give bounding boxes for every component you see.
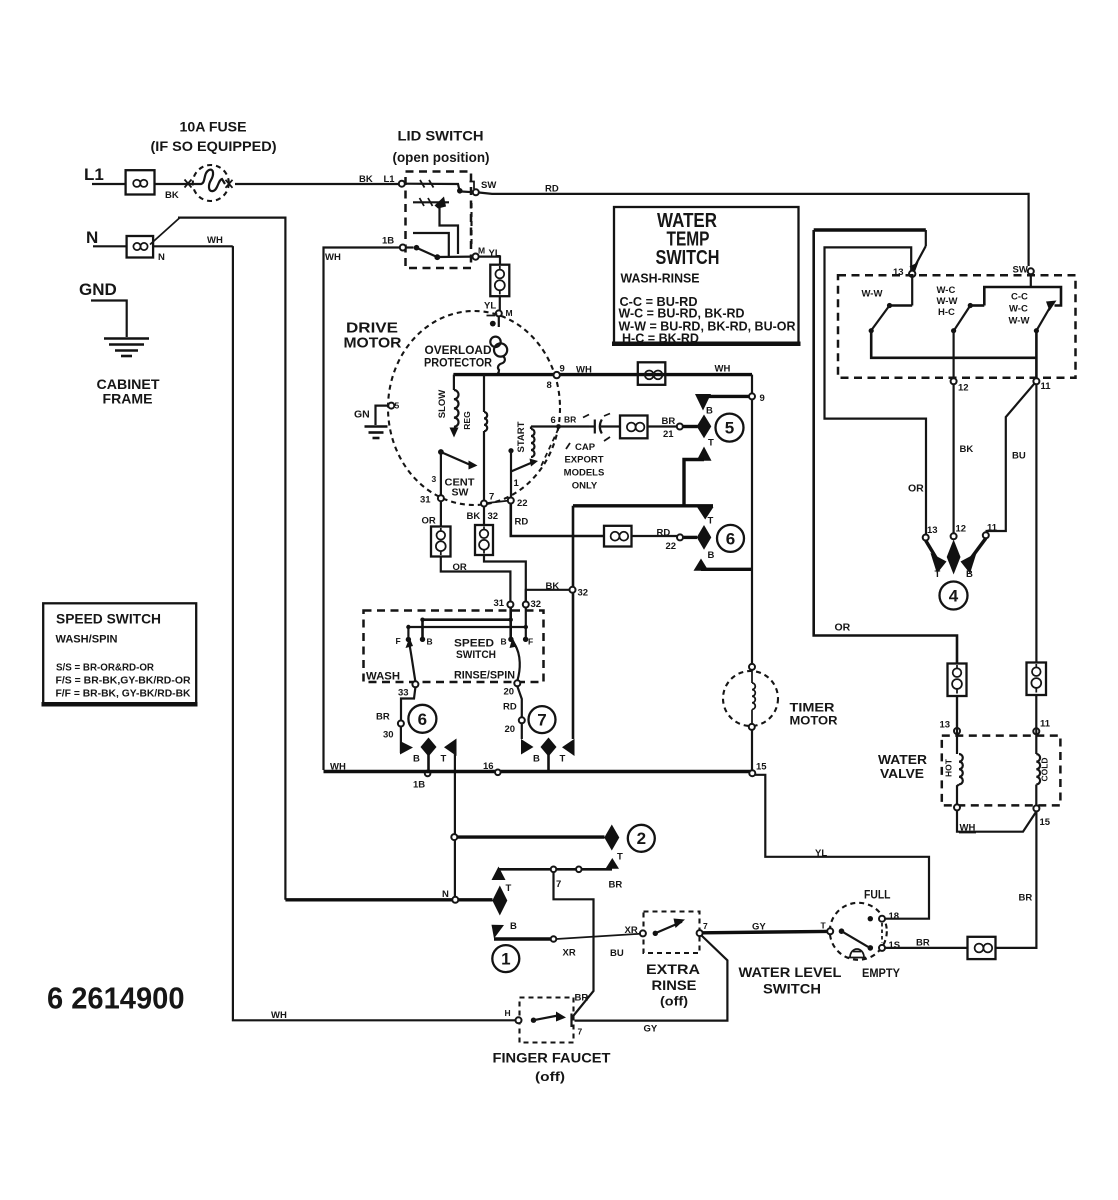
svg-text:B: B xyxy=(706,406,713,417)
cent sw blade arrow xyxy=(469,461,478,470)
wire diamond to bus xyxy=(427,754,430,770)
svg-text:13: 13 xyxy=(940,720,951,731)
wire to terminal 21 xyxy=(648,425,677,427)
wire 13 into box xyxy=(911,277,913,306)
svg-text:WH: WH xyxy=(576,365,592,376)
start blade dashed throw xyxy=(540,429,559,470)
svg-text:HOT: HOT xyxy=(944,758,954,777)
wire SW drop xyxy=(1030,274,1032,287)
terminal 31 speed switch xyxy=(507,602,513,608)
svg-text:12: 12 xyxy=(958,383,969,394)
wire to SW xyxy=(462,190,473,193)
svg-text:SW: SW xyxy=(1013,265,1028,276)
svg-text:RINSE/SPIN: RINSE/SPIN xyxy=(454,670,515,682)
label DRIVE MOTOR xyxy=(344,320,402,352)
wire BR from empty xyxy=(885,947,968,949)
water level blade xyxy=(842,931,869,947)
svg-text:WH: WH xyxy=(271,1010,287,1021)
svg-text:WATER: WATER xyxy=(878,753,927,767)
label WATER VALVE xyxy=(878,753,927,781)
terminal 21 xyxy=(677,424,683,430)
svg-text:6: 6 xyxy=(418,710,427,729)
N diamond xyxy=(492,886,507,916)
svg-text:T: T xyxy=(506,883,512,894)
svg-text:WATER LEVEL: WATER LEVEL xyxy=(739,965,842,980)
wash blade xyxy=(406,638,416,682)
label LID SWITCH (open position) xyxy=(393,128,490,166)
contact dot xyxy=(457,188,463,194)
svg-text:10A FUSE: 10A FUSE xyxy=(180,119,247,135)
node 5 circle xyxy=(716,414,744,442)
svg-text:M: M xyxy=(506,308,513,318)
svg-text:7: 7 xyxy=(556,879,561,890)
contact bracket above SW xyxy=(470,182,475,190)
svg-text:B: B xyxy=(427,637,433,647)
terminal XR extra rinse xyxy=(640,930,646,936)
reg winding branch xyxy=(484,375,487,501)
terminal 22 node6 xyxy=(677,534,683,540)
lid switch internal link1 xyxy=(413,202,458,254)
node6b right arrow xyxy=(444,739,457,757)
wire to M xyxy=(437,256,472,259)
wire neutral riser xyxy=(178,218,285,900)
wire W-W to common xyxy=(871,331,1036,358)
svg-text:W-C: W-C xyxy=(937,285,956,296)
wire cap line xyxy=(531,425,589,427)
svg-text:L1: L1 xyxy=(384,174,396,185)
contact dot overload xyxy=(490,321,496,327)
terminal 11 temp switch xyxy=(1033,378,1039,384)
timer motor dashed circle xyxy=(723,671,778,726)
svg-text:BR: BR xyxy=(376,712,390,723)
finger faucet blade xyxy=(531,1012,566,1023)
label OVERLOAD PROTECTOR xyxy=(424,343,492,370)
wire lid pole2 xyxy=(406,246,414,248)
svg-text:N: N xyxy=(442,889,449,900)
wire hot to bottom xyxy=(957,785,959,805)
blade 11 xyxy=(1034,307,1051,334)
label 10A FUSE (IF SO EQUIPPED) xyxy=(151,119,277,155)
wire 30 down xyxy=(400,727,402,754)
svg-text:SW: SW xyxy=(452,487,469,499)
svg-text:11: 11 xyxy=(1041,381,1052,392)
svg-text:(off): (off) xyxy=(535,1069,565,1084)
svg-text:B: B xyxy=(533,754,540,765)
wire common vertical (T net) xyxy=(572,506,575,739)
blade 11 arrow xyxy=(1046,301,1057,312)
svg-text:GY: GY xyxy=(644,1024,658,1035)
wire RD from 22 motor xyxy=(511,504,604,537)
junction circle 32 xyxy=(570,587,576,593)
node 1 circle xyxy=(492,945,519,972)
svg-text:WH: WH xyxy=(330,762,346,773)
terminal 5 xyxy=(388,403,394,409)
svg-text:B: B xyxy=(966,569,973,580)
junction N xyxy=(452,897,458,903)
svg-text:BK: BK xyxy=(960,444,974,455)
svg-text:32: 32 xyxy=(578,588,589,599)
svg-text:15: 15 xyxy=(1040,817,1051,828)
dashes near CAP xyxy=(566,437,610,449)
wire XR to extra rinse xyxy=(556,934,640,939)
svg-text:9: 9 xyxy=(560,364,565,375)
timer motor terminals xyxy=(749,664,755,730)
wire GY branch to finger faucet xyxy=(575,936,728,1021)
svg-text:ONLY: ONLY xyxy=(572,481,598,492)
cent sw blade xyxy=(441,452,470,465)
svg-text:BK: BK xyxy=(165,190,179,201)
svg-text:18: 18 xyxy=(889,911,900,922)
connector P4 on WH xyxy=(638,362,666,385)
node4 right arrow xyxy=(961,538,986,573)
terminal 30 xyxy=(398,721,404,727)
svg-text:32: 32 xyxy=(531,599,542,610)
svg-text:W-W: W-W xyxy=(937,296,958,307)
node2 T arrow xyxy=(606,858,620,869)
wire WH jog xyxy=(957,810,1036,831)
terminal 7 finger faucet xyxy=(570,1014,572,1028)
label FINGER FAUCET (off) xyxy=(493,1050,611,1085)
svg-text:SWITCH: SWITCH xyxy=(456,649,496,661)
wire gnd stub xyxy=(376,406,389,425)
blade pole2 xyxy=(417,248,438,257)
svg-text:7: 7 xyxy=(703,921,708,931)
label W-C W-W H-C xyxy=(937,285,958,318)
water valve dashed box xyxy=(942,736,1061,806)
svg-text:OR: OR xyxy=(422,516,436,527)
connector P7 OR (motor 31) xyxy=(431,527,451,557)
node7 right arrow xyxy=(562,739,575,756)
node7 diamond xyxy=(541,738,557,757)
svg-text:BU: BU xyxy=(1012,451,1026,462)
wire WH lid return xyxy=(324,248,400,771)
cold coil xyxy=(1036,754,1040,784)
svg-text:6: 6 xyxy=(726,529,735,548)
node5 B arrow xyxy=(695,394,711,411)
node6b left arrow xyxy=(400,741,413,755)
terminal 13 node4 xyxy=(923,535,929,541)
svg-text:BR: BR xyxy=(564,415,576,425)
svg-text:EXPORT: EXPORT xyxy=(564,455,603,466)
label WATER LEVEL SWITCH xyxy=(739,965,842,997)
svg-text:FRAME: FRAME xyxy=(103,391,153,407)
terminal 9 xyxy=(749,393,755,399)
wire WH from N connector xyxy=(153,246,518,1020)
wire 15 jog to YL xyxy=(755,775,930,919)
wire bottom bus WH xyxy=(324,770,753,773)
start switch blade xyxy=(511,463,532,472)
svg-text:OR: OR xyxy=(908,483,924,495)
svg-text:GN: GN xyxy=(354,409,370,421)
blade tick marks pole1 xyxy=(420,180,434,188)
wire N xyxy=(93,245,127,247)
wire 11 blade down xyxy=(1035,331,1038,379)
wire L1 to fuse xyxy=(155,183,197,185)
terminal 7 extra rinse xyxy=(697,930,703,936)
wire 7 stem down (BR) xyxy=(554,872,594,1016)
wire cold to 15 xyxy=(1035,785,1037,806)
svg-text:31: 31 xyxy=(420,495,431,506)
svg-text:BU: BU xyxy=(610,948,624,959)
wire YL below connector xyxy=(499,296,501,310)
wire 11 into valve xyxy=(1035,695,1037,754)
switch blade on N xyxy=(150,218,180,245)
svg-text:S/S = BR-OR&RD-OR: S/S = BR-OR&RD-OR xyxy=(56,663,155,674)
fuse F1 10A (dashed circle and element) xyxy=(193,165,229,201)
water level switch dashed circle xyxy=(830,903,887,960)
svg-text:GND: GND xyxy=(79,280,117,299)
svg-text:B: B xyxy=(510,921,517,932)
terminal 1B xyxy=(400,245,406,251)
terminal T water level xyxy=(827,928,833,934)
contact dot xyxy=(414,245,420,251)
svg-text:SWITCH: SWITCH xyxy=(656,247,720,269)
svg-text:1: 1 xyxy=(501,950,510,969)
wire node6 B to line 9 xyxy=(701,568,752,571)
terminal 32 speed switch xyxy=(523,602,529,608)
wire XR xyxy=(494,937,554,940)
svg-text:B: B xyxy=(501,637,507,647)
terminal H finger faucet xyxy=(516,1017,522,1023)
svg-text:5: 5 xyxy=(395,401,400,411)
wire connector to 13 valve xyxy=(956,696,958,728)
wire into overload xyxy=(498,316,500,327)
wire T bus to node6 xyxy=(684,504,713,507)
terminal 31 motor xyxy=(438,495,444,501)
svg-text:BR: BR xyxy=(1019,893,1033,904)
wire stem to N xyxy=(454,840,456,897)
contact bar W-W xyxy=(887,303,912,308)
svg-text:33: 33 xyxy=(398,688,409,699)
lid switch internal link2 xyxy=(413,233,449,257)
connector P11 right valve xyxy=(1027,663,1047,696)
svg-text:31: 31 xyxy=(494,598,505,609)
svg-text:5: 5 xyxy=(725,419,734,438)
terminal 13 temp switch xyxy=(909,271,915,277)
svg-text:22: 22 xyxy=(666,541,677,552)
svg-text:1B: 1B xyxy=(382,236,394,247)
svg-text:22: 22 xyxy=(517,498,528,509)
wire 9 down to timer xyxy=(751,399,753,664)
svg-text:1S: 1S xyxy=(889,940,901,951)
svg-text:VALVE: VALVE xyxy=(880,767,924,781)
svg-text:BR: BR xyxy=(916,938,930,949)
blade 7-22 xyxy=(487,501,507,503)
svg-text:8: 8 xyxy=(547,380,552,391)
terminal 11 node4 xyxy=(983,532,989,538)
svg-text:BK: BK xyxy=(359,174,373,185)
svg-text:H-C = BK-RD: H-C = BK-RD xyxy=(622,331,699,346)
junction node2 stem xyxy=(451,834,457,840)
rinse blade xyxy=(510,638,520,681)
connector P9 on BR xyxy=(968,937,996,959)
internal tick marks xyxy=(420,198,433,206)
wire BU 11 diagonal xyxy=(987,384,1035,533)
contact bar C-C (SW common) xyxy=(984,287,1061,306)
full contact dot xyxy=(868,916,873,921)
svg-text:LID SWITCH: LID SWITCH xyxy=(398,128,484,144)
svg-text:20: 20 xyxy=(504,687,515,698)
wire 33 to 30 xyxy=(401,687,415,720)
svg-text:PROTECTOR: PROTECTOR xyxy=(424,356,492,370)
svg-text:COLD: COLD xyxy=(1040,757,1050,781)
svg-text:H-C: H-C xyxy=(938,307,955,318)
label WH xyxy=(959,823,976,834)
terminal 18 xyxy=(879,916,885,922)
node4 left arrow xyxy=(926,541,947,574)
label WATER TEMP SWITCH xyxy=(656,210,720,269)
node 4 circle xyxy=(940,582,968,610)
label TIMER MOTOR xyxy=(790,701,838,728)
blade 12 xyxy=(951,306,970,379)
svg-text:H: H xyxy=(505,1008,511,1018)
wire lid pole1 xyxy=(405,184,460,191)
extra rinse dashed box xyxy=(644,912,700,954)
terminal 15 valve xyxy=(1033,805,1039,811)
terminal 7 xyxy=(551,867,557,873)
wire overload to junction xyxy=(497,372,499,374)
junction dot 6 xyxy=(556,424,561,429)
terminal on BR xyxy=(576,867,582,873)
connector P8 BK (motor 7/32) xyxy=(475,525,493,555)
junction 15 timer xyxy=(749,770,755,776)
svg-text:6 2614900: 6 2614900 xyxy=(47,981,185,1016)
svg-text:WH: WH xyxy=(207,235,223,246)
svg-text:1B: 1B xyxy=(413,780,425,791)
junction 16 xyxy=(495,770,501,776)
svg-text:OR: OR xyxy=(453,562,467,573)
wire bus outer down (OR) xyxy=(814,230,957,664)
wire 13 into valve xyxy=(956,696,958,754)
timer motor coil xyxy=(752,670,755,724)
terminal 11 valve xyxy=(1033,728,1039,734)
svg-text:FINGER FAUCET: FINGER FAUCET xyxy=(493,1050,611,1066)
svg-text:2: 2 xyxy=(637,829,646,848)
svg-text:N: N xyxy=(86,228,98,247)
connector P10 OR valve xyxy=(948,664,967,697)
wire 22 to node6 xyxy=(683,536,697,539)
cent sw pivot dot xyxy=(438,449,444,455)
svg-text:RINSE: RINSE xyxy=(652,977,697,993)
wire BK fuse to lid switch xyxy=(235,183,399,185)
blade arrow 13 xyxy=(910,262,919,273)
wire RD from SW xyxy=(479,193,1029,267)
terminal 22 motor xyxy=(508,498,514,504)
temp switch dashed box xyxy=(838,275,1076,378)
connector P3 YL xyxy=(490,265,509,297)
svg-text:RD: RD xyxy=(545,184,559,195)
connector P2 on N xyxy=(127,236,154,258)
slow winding branch xyxy=(454,375,459,427)
svg-text:F/S = BR-BK,GY-BK/RD-OR: F/S = BR-BK,GY-BK/RD-OR xyxy=(56,676,192,687)
wire 11 net down to connector xyxy=(1035,384,1037,662)
connector P6 on RD xyxy=(604,526,632,547)
svg-text:W-W: W-W xyxy=(1009,316,1030,327)
wire OR below connector xyxy=(441,557,511,602)
node 2 circle xyxy=(628,825,655,852)
start blade arrow xyxy=(530,459,539,467)
wire GY to water level xyxy=(703,931,828,932)
fuse F1 terminal x mark xyxy=(185,180,192,188)
contact W-C dot xyxy=(968,303,985,308)
contact dots B xyxy=(420,618,514,643)
node7 left arrow xyxy=(521,739,534,755)
svg-text:21: 21 xyxy=(663,429,674,440)
svg-text:EXTRA: EXTRA xyxy=(646,961,700,977)
wire N to junction diamond xyxy=(285,898,492,901)
svg-text:F: F xyxy=(396,636,401,646)
terminal 12 temp switch xyxy=(951,378,957,384)
svg-text:F/F = BR-BK, GY-BK/RD-BK: F/F = BR-BK, GY-BK/RD-BK xyxy=(56,689,192,700)
terminal 15 water level xyxy=(879,945,885,951)
wire RD 20 down xyxy=(517,686,522,717)
svg-text:MOTOR: MOTOR xyxy=(344,335,402,352)
svg-text:T: T xyxy=(560,754,566,765)
svg-text:11: 11 xyxy=(987,523,998,534)
wire 20b down xyxy=(521,723,523,739)
water temp switch box xyxy=(612,207,801,344)
svg-text:15: 15 xyxy=(756,762,767,773)
node5 T arrow xyxy=(697,447,712,461)
svg-text:T: T xyxy=(935,569,941,580)
label CENT SW xyxy=(445,477,476,499)
svg-text:BR: BR xyxy=(575,993,589,1004)
junction 1B on bus xyxy=(425,771,431,777)
terminal SW xyxy=(473,189,479,195)
terminal 12 node4 xyxy=(951,533,957,539)
blade W-W xyxy=(869,306,890,334)
terminal L1 of lid switch xyxy=(399,181,405,187)
finger faucet dashed box xyxy=(520,998,574,1043)
svg-text:T: T xyxy=(821,921,827,931)
wire bus inner xyxy=(825,247,927,534)
slow winding arrow xyxy=(450,428,459,438)
svg-text:30: 30 xyxy=(383,730,394,741)
capacitor C1 xyxy=(583,414,620,434)
wire WH main xyxy=(453,373,752,376)
overload protector coils xyxy=(490,337,507,374)
speed switch bar B (31) xyxy=(423,608,512,638)
ground symbol (cabinet frame) xyxy=(104,339,149,357)
svg-text:REG: REG xyxy=(462,411,472,430)
wire WH corner to 9 xyxy=(751,375,753,394)
svg-text:SWITCH: SWITCH xyxy=(763,982,821,997)
terminal valve bottom left xyxy=(954,804,960,810)
terminal 20b xyxy=(519,717,525,723)
contact dot xyxy=(434,254,440,260)
empty contact dot xyxy=(868,945,874,951)
speed switch legend box xyxy=(42,603,198,704)
svg-text:(open position): (open position) xyxy=(393,150,490,165)
svg-text:(IF SO EQUIPPED): (IF SO EQUIPPED) xyxy=(151,138,277,154)
terminal SW temp switch xyxy=(1028,268,1034,274)
terminal 13 valve xyxy=(954,728,960,734)
node5 diamond xyxy=(697,415,712,439)
fuse F1 right x mark xyxy=(226,180,233,188)
svg-text:C-C: C-C xyxy=(1011,292,1028,303)
label SPEED SWITCH xyxy=(454,638,496,662)
label C-C legend xyxy=(619,294,797,346)
svg-text:W-C: W-C xyxy=(1009,304,1028,315)
wire BK 12 down xyxy=(952,384,954,533)
terminal M motor xyxy=(496,310,502,316)
node 6b circle xyxy=(408,705,436,733)
speed switch dashed box xyxy=(364,611,544,683)
svg-text:MOTOR: MOTOR xyxy=(790,714,838,728)
svg-text:B: B xyxy=(708,550,715,561)
wire M to YL connector xyxy=(479,257,500,265)
internal blade arrow xyxy=(435,197,447,209)
